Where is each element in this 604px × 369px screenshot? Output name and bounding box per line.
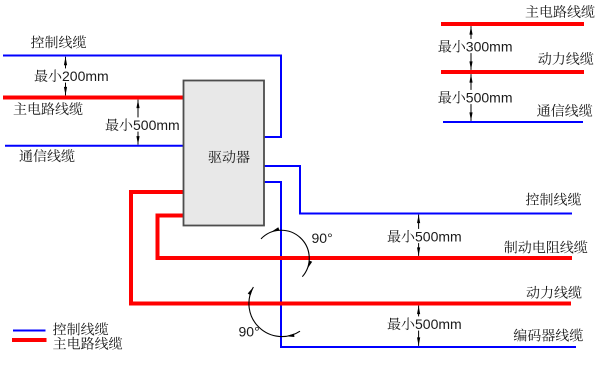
dimension arrow min500 bottom-right <box>418 306 420 346</box>
legend: control cable sample line <box>13 330 46 332</box>
arc: 90-degree crossing note at brake-resistor/control crossing <box>261 230 309 276</box>
drive unit box <box>184 81 265 226</box>
svg-text:300mm: 300mm <box>466 39 513 55</box>
label: brake resistor cable right <box>504 240 587 253</box>
wire: communication cable left <box>5 145 183 147</box>
label: main circuit cable left <box>14 102 83 115</box>
dimension arrow min300 top-right <box>470 26 472 70</box>
dimension arrow min500 left <box>137 100 139 145</box>
wire: communication cable top-right <box>443 121 583 123</box>
label: min 500mm left <box>104 117 181 131</box>
label: legend control cable <box>53 322 108 335</box>
dimension arrow min200 top-left <box>65 57 67 96</box>
label: communication cable top-right <box>537 104 592 117</box>
label: min 500mm right-middle <box>386 229 463 243</box>
label: power cable right <box>527 286 582 299</box>
label: min 500mm bottom-right <box>386 316 463 330</box>
wire: power cable top-right <box>441 70 584 74</box>
dimension arrow min500 right-middle <box>418 215 420 256</box>
svg-text:500mm: 500mm <box>415 229 462 245</box>
label: min 300mm top-right <box>437 39 514 53</box>
wire: brake resistor cable from drive left down and right <box>158 216 573 259</box>
wire: main circuit cable top-right <box>441 22 584 26</box>
svg-text:500mm: 500mm <box>415 316 462 332</box>
label: drive unit <box>209 150 250 163</box>
wire: encoder cable from drive right, long vertical drop <box>264 182 576 347</box>
label: control cable right <box>526 193 581 206</box>
wire: power cable from drive left down and right <box>131 192 571 304</box>
label: legend main circuit cable <box>53 337 122 350</box>
wire: control cable top-left into drive right side <box>3 56 281 138</box>
label: min 500mm top-right <box>437 90 514 104</box>
svg-text:90°: 90° <box>312 230 333 246</box>
legend: main circuit cable sample line <box>12 338 47 342</box>
wire: control cable from drive right to lower right <box>264 166 572 214</box>
label: main circuit cable top-right <box>526 5 595 18</box>
label: encoder cable right <box>514 329 583 342</box>
svg-text:200mm: 200mm <box>62 68 109 84</box>
label: control cable top-left <box>31 35 86 48</box>
label: power cable top-right <box>538 52 593 65</box>
svg-text:500mm: 500mm <box>133 117 180 133</box>
arc: 90-degree crossing note at power/encoder crossing <box>249 287 300 337</box>
label: communication cable left <box>19 149 74 162</box>
wire: main circuit cable into drive left <box>3 96 183 100</box>
svg-text:90°: 90° <box>239 323 260 339</box>
dimension arrow min500 top-right <box>470 74 472 121</box>
svg-text:500mm: 500mm <box>466 90 513 106</box>
label: min 200mm <box>33 68 110 82</box>
